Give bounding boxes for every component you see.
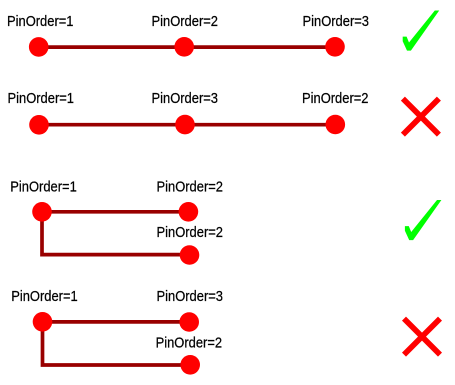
- pin dot row 2 PinOrder=1: [29, 115, 49, 135]
- svg-text:PinOrder=3: PinOrder=3: [152, 91, 219, 107]
- svg-text:PinOrder=2: PinOrder=2: [157, 225, 224, 241]
- green check row 3: [405, 200, 442, 240]
- red X row 2: [403, 99, 439, 135]
- wire row 2: [39, 123, 335, 127]
- pin dot row 1 PinOrder=1: [29, 37, 49, 57]
- pin dot row 2 PinOrder=3: [175, 115, 195, 135]
- svg-text:PinOrder=3: PinOrder=3: [157, 289, 224, 305]
- pin dot row 4 top PinOrder=3: [179, 312, 199, 332]
- svg-text:PinOrder=2: PinOrder=2: [152, 14, 219, 30]
- svg-text:PinOrder=1: PinOrder=1: [7, 14, 74, 30]
- svg-text:PinOrder=1: PinOrder=1: [11, 289, 78, 305]
- svg-text:PinOrder=2: PinOrder=2: [302, 91, 369, 107]
- pin dot row 2 PinOrder=2: [326, 115, 346, 135]
- red X row 4: [404, 319, 440, 355]
- wire row 3: [42, 212, 190, 255]
- pin dot row 4 bottom PinOrder=2: [180, 355, 200, 375]
- svg-text:PinOrder=2: PinOrder=2: [157, 180, 224, 196]
- pin dot row 1 PinOrder=2: [174, 37, 194, 57]
- svg-text:PinOrder=3: PinOrder=3: [303, 14, 370, 30]
- svg-text:PinOrder=2: PinOrder=2: [156, 336, 223, 352]
- svg-text:PinOrder=1: PinOrder=1: [10, 180, 77, 196]
- pin dot row 1 PinOrder=3: [325, 37, 345, 57]
- svg-text:PinOrder=1: PinOrder=1: [8, 91, 75, 107]
- green check row 1: [403, 11, 440, 51]
- pin dot row 3 bottom PinOrder=2: [180, 245, 200, 265]
- pin dot row 3 top PinOrder=2: [179, 202, 199, 222]
- wire row 4: [43, 322, 191, 365]
- pin dot row 3 PinOrder=1: [32, 202, 52, 222]
- wire row 1: [39, 45, 335, 49]
- pin dot row 4 PinOrder=1: [33, 312, 53, 332]
